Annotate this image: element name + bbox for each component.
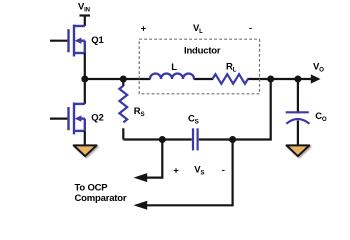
- node inductor-left junction dot: [120, 76, 127, 83]
- svg-text:VO: VO: [313, 61, 324, 73]
- capacitor CS right plate: [197, 128, 199, 150]
- resistor RS: [119, 86, 127, 123]
- svg-text:-: -: [249, 23, 252, 34]
- node switch junction dot: [81, 76, 88, 83]
- wire main rail switch node to inductor: [85, 78, 151, 80]
- wire OCP sense 1: [146, 140, 162, 178]
- ground GND2: [286, 145, 309, 156]
- Q1 body stub: [79, 40, 85, 42]
- Q1 gate bar: [67, 29, 69, 52]
- node CO tap junction dot: [294, 76, 301, 83]
- Q2 body-source tie: [84, 119, 86, 131]
- Q1 body arrow: [75, 38, 82, 44]
- svg-text:Q1: Q1: [91, 35, 104, 46]
- svg-text:To OCP: To OCP: [75, 182, 109, 193]
- arrow OCP 1: [134, 173, 148, 182]
- wire VIN terminal bar: [80, 14, 91, 16]
- wire inductor to RL: [194, 78, 214, 80]
- inductor dashed box: [139, 39, 259, 94]
- svg-text:+: +: [173, 165, 179, 176]
- wire RS top lead: [122, 79, 124, 86]
- capacitor CS left plate: [192, 128, 194, 150]
- inductor L: [150, 74, 194, 80]
- Q1 source stub: [74, 52, 85, 54]
- wire switch node to Q2 drain: [84, 79, 86, 104]
- svg-text:Comparator: Comparator: [75, 193, 127, 204]
- Q2 channel bar: [73, 103, 75, 135]
- wire OCP sense 2: [146, 140, 233, 206]
- arrow VO output: [311, 74, 321, 83]
- Q2 source stub: [74, 130, 85, 132]
- svg-text:-: -: [222, 165, 225, 176]
- svg-text:RS: RS: [134, 106, 145, 118]
- wire CO bottom lead: [297, 121, 299, 147]
- wire Q2 source to ground: [84, 131, 86, 146]
- Q2 gate bar: [67, 107, 69, 130]
- capacitor CO top plate: [286, 111, 309, 113]
- transistor Q1: [69, 25, 85, 57]
- node VS right junction dot: [229, 136, 236, 143]
- transistor Q2: [69, 103, 85, 135]
- svg-text:CO: CO: [315, 111, 327, 123]
- wire bottom rail left (RS to CS): [123, 138, 192, 140]
- svg-text:VL: VL: [193, 23, 203, 35]
- wire VIN to Q1 drain: [84, 16, 86, 27]
- ground GND1: [74, 145, 97, 156]
- Q2 drain stub: [74, 103, 85, 105]
- arrow OCP 2: [134, 201, 148, 210]
- Q2 body stub: [79, 117, 85, 119]
- svg-text:L: L: [171, 62, 177, 73]
- node VS left junction dot: [159, 136, 166, 143]
- node inductor-right junction dot: [267, 76, 274, 83]
- capacitor CO bottom plate: [286, 119, 309, 124]
- svg-text:RL: RL: [226, 62, 237, 74]
- wire bottom rail right (CS up to output node): [199, 79, 271, 140]
- wire CO top lead: [297, 79, 299, 114]
- svg-text:+: +: [141, 24, 147, 35]
- svg-text:VIN: VIN: [78, 2, 90, 14]
- Q2 body arrow: [75, 115, 82, 121]
- svg-text:VS: VS: [194, 165, 204, 177]
- resistor RL: [213, 74, 248, 84]
- wire Q1 gate lead: [50, 40, 67, 42]
- Q1 body-source tie: [84, 41, 86, 53]
- wire Q1 source to switch node: [84, 53, 86, 79]
- wire RL to VO arrow: [248, 78, 312, 80]
- wire RS bottom lead: [122, 128, 124, 139]
- Q1 channel bar: [73, 25, 75, 57]
- Q1 drain stub: [74, 25, 85, 27]
- wire Q2 gate lead: [50, 117, 67, 119]
- svg-text:Inductor: Inductor: [184, 46, 221, 57]
- svg-text:CS: CS: [188, 114, 199, 126]
- svg-text:Q2: Q2: [91, 113, 103, 124]
